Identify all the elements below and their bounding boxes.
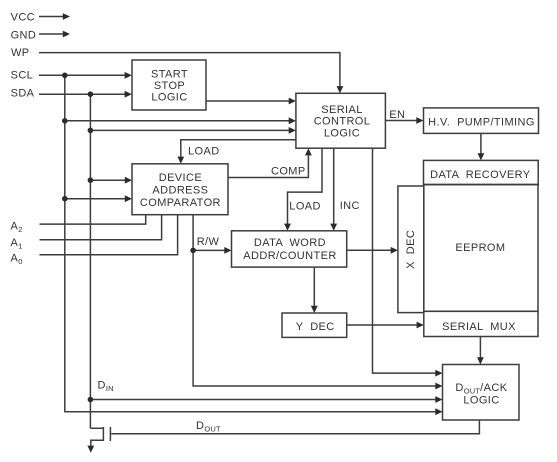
svg-text:SERIAL: SERIAL xyxy=(321,104,363,116)
junction dot SCL/comparator branch xyxy=(62,196,68,202)
svg-text:GND: GND xyxy=(11,29,37,41)
block H.V. PUMP/TIMING xyxy=(424,108,539,133)
block DOUT/ACK LOGIC xyxy=(443,365,520,421)
svg-text:DATA WORD: DATA WORD xyxy=(254,237,326,249)
block START STOP LOGIC xyxy=(132,60,206,110)
wire data word addr/counter to X DEC xyxy=(347,247,398,254)
wire SCL branch to device address comparator input 2 xyxy=(65,195,132,202)
svg-text:LOGIC: LOGIC xyxy=(151,92,187,104)
wire INC from serial control logic to data word addr/counter xyxy=(330,148,337,231)
svg-text:LOAD: LOAD xyxy=(188,145,220,157)
text DOUT/ACK LOGIC xyxy=(455,382,507,406)
transistor Q1 gate bar xyxy=(109,427,111,441)
wire SCL branch to serial control logic input 2 xyxy=(65,117,296,124)
wire Din to Dout/ACK input 3 xyxy=(90,396,442,403)
wire start stop logic output to serial control logic input 1 xyxy=(206,98,296,105)
svg-text:DOUT: DOUT xyxy=(196,420,221,434)
wire R/W from comparator down to Dout/ACK input 2 xyxy=(193,215,442,390)
wire SCL input xyxy=(39,72,132,79)
wire A2 to comparator xyxy=(40,215,146,224)
wire SDA branch to device address comparator input 1 xyxy=(90,177,132,184)
svg-text:ADDR/COUNTER: ADDR/COUNTER xyxy=(243,250,336,262)
wire SDA branch to serial control logic input 3 xyxy=(90,127,296,134)
junction dot SDA/comparator branch xyxy=(88,177,94,183)
wire VCC arrow xyxy=(39,13,70,20)
junction dot Din xyxy=(88,397,94,403)
block DATA RECOVERY xyxy=(424,160,539,184)
wire A0 to comparator xyxy=(40,215,178,255)
junction dot SCL/serial branch xyxy=(62,118,68,124)
svg-text:EN: EN xyxy=(389,109,405,121)
wire GND arrow xyxy=(39,31,70,38)
svg-text:LOGIC: LOGIC xyxy=(324,127,360,139)
svg-text:DATA RECOVERY: DATA RECOVERY xyxy=(430,169,531,181)
block Y DEC xyxy=(282,313,347,337)
text START STOP LOGIC xyxy=(151,69,188,104)
block EEPROM xyxy=(424,184,538,311)
wire serial mux to Dout/ACK logic xyxy=(477,337,484,365)
svg-text:X DEC: X DEC xyxy=(405,230,417,269)
junction dot R/W branch xyxy=(190,248,196,254)
wire EN from serial control logic to H.V. pump xyxy=(385,117,423,124)
svg-text:A2: A2 xyxy=(11,221,23,235)
block SERIAL CONTROL LOGIC xyxy=(296,93,386,148)
svg-text:H.V. PUMP/TIMING: H.V. PUMP/TIMING xyxy=(428,116,535,128)
svg-text:STOP: STOP xyxy=(154,80,185,92)
wire SCL vertical bus down to Dout/ACK input 4 xyxy=(65,75,443,415)
svg-text:EEPROM: EEPROM xyxy=(455,242,505,254)
svg-text:SERIAL MUX: SERIAL MUX xyxy=(442,321,516,333)
text SERIAL CONTROL LOGIC xyxy=(314,104,371,139)
block SERIAL MUX xyxy=(424,311,538,336)
svg-text:COMP: COMP xyxy=(271,165,306,177)
svg-text:A1: A1 xyxy=(11,237,23,251)
svg-text:DIN: DIN xyxy=(98,379,114,393)
wire LOAD from serial control logic to data word addr/counter xyxy=(284,148,322,231)
wire serial control logic to Dout/ACK input 1 xyxy=(373,148,443,376)
svg-text:Y DEC: Y DEC xyxy=(296,321,335,333)
svg-text:R/W: R/W xyxy=(197,236,220,248)
text DATA WORD ADDR/COUNTER xyxy=(243,237,336,262)
wire data word addr/counter to Y DEC xyxy=(311,267,318,313)
svg-text:START: START xyxy=(151,69,188,81)
wire SDA input xyxy=(39,91,132,98)
wire SDA vertical bus down to output transistor xyxy=(89,94,91,428)
wire Dout from Dout/ACK logic to output transistor gate xyxy=(111,420,479,434)
wire LOAD from serial control logic to comparator top xyxy=(177,140,296,164)
svg-text:WP: WP xyxy=(11,47,30,59)
svg-text:A0: A0 xyxy=(11,252,23,266)
block X DEC xyxy=(398,186,424,313)
svg-text:INC: INC xyxy=(340,200,360,212)
wire H.V. pump to data recovery xyxy=(478,133,485,160)
svg-text:LOAD: LOAD xyxy=(289,200,321,212)
block DATA WORD ADDR/COUNTER xyxy=(232,231,347,267)
block DEVICE ADDRESS COMPARATOR xyxy=(132,164,228,215)
svg-text:DEVICE: DEVICE xyxy=(159,172,202,184)
svg-text:SCL: SCL xyxy=(11,70,34,82)
svg-text:VCC: VCC xyxy=(11,12,35,24)
junction dot SDA/start-stop xyxy=(88,91,94,97)
wire COMP from comparator to serial control logic bottom xyxy=(228,148,312,177)
svg-text:CONTROL: CONTROL xyxy=(314,116,371,128)
junction dot SCL/start-stop xyxy=(62,73,68,79)
svg-text:LOGIC: LOGIC xyxy=(463,395,499,407)
wire A1 to comparator xyxy=(40,215,162,240)
svg-text:COMPARATOR: COMPARATOR xyxy=(140,197,221,209)
svg-text:SDA: SDA xyxy=(11,88,35,100)
svg-text:ADDRESS: ADDRESS xyxy=(152,185,208,197)
transistor Q1 output pulldown drain/source path xyxy=(87,427,103,453)
wire WP to serial control logic top xyxy=(39,53,343,94)
junction dot SDA/serial branch xyxy=(88,128,94,134)
wire R/W branch to data word addr/counter xyxy=(193,247,231,254)
wire Y DEC to serial mux xyxy=(347,322,424,329)
text DEVICE ADDRESS COMPARATOR xyxy=(140,172,221,209)
